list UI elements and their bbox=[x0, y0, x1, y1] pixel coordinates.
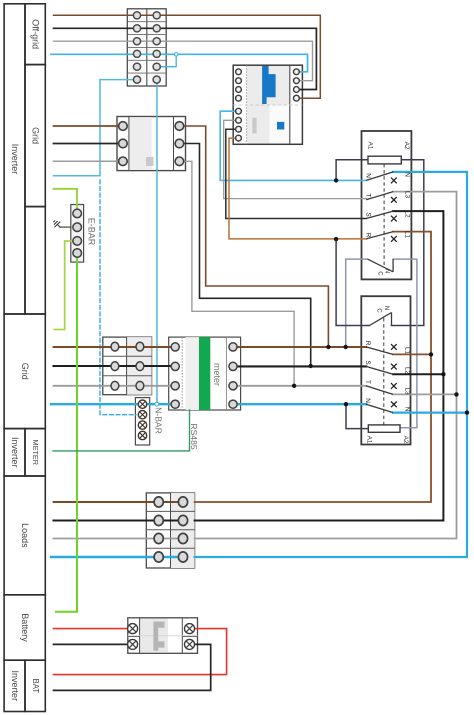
svg-text:N: N bbox=[404, 172, 411, 177]
wire earth stub bbox=[60, 226, 71, 228]
wire ATS out L3 gray bbox=[195, 192, 457, 539]
wire off-grid N cyan bbox=[51, 54, 308, 72]
svg-text:A1: A1 bbox=[367, 142, 374, 150]
contactor K2 body bbox=[103, 337, 152, 395]
label box Inverter (meter row) bbox=[4, 429, 25, 476]
label box Inverter (top) bbox=[4, 4, 25, 314]
wire ATS out L2 black bbox=[195, 211, 444, 520]
loads block TB2 body bbox=[146, 493, 194, 568]
battery breaker terminals bbox=[128, 624, 195, 650]
wire KA2 out N stub bbox=[393, 412, 467, 414]
wire grid L3 gray bbox=[54, 385, 367, 387]
svg-text:Inverter: Inverter bbox=[10, 671, 20, 702]
KA1 linkage dashed bbox=[383, 164, 385, 266]
wire ATS out N cyan bbox=[195, 172, 467, 557]
wire off-grid L1 brown bbox=[54, 15, 321, 98]
wire off-grid L2 black bbox=[54, 28, 317, 89]
KA2 coil bbox=[368, 425, 400, 432]
svg-text:C: C bbox=[377, 271, 383, 276]
svg-text:T: T bbox=[364, 194, 371, 198]
wire grid-top L3 gray bbox=[54, 160, 124, 162]
wire KA1 changeover common bbox=[346, 259, 368, 347]
svg-text:Off-grid: Off-grid bbox=[30, 19, 40, 49]
KA1 coil bbox=[368, 156, 401, 164]
svg-text:R: R bbox=[364, 233, 371, 238]
RCD toggle bbox=[262, 66, 276, 104]
svg-text:N: N bbox=[364, 398, 371, 403]
svg-text:R: R bbox=[364, 341, 371, 346]
wire grid-top N blue bbox=[54, 80, 138, 176]
wire KA1 A2 link bbox=[392, 160, 424, 326]
wire RCD L1 out orange bbox=[229, 138, 366, 239]
RCD terminals bbox=[236, 69, 300, 141]
LABEL PANEL bbox=[4, 4, 45, 712]
label box Off-grid bbox=[25, 4, 45, 65]
svg-text:A2: A2 bbox=[403, 142, 410, 150]
wire KA2 out L1 stub bbox=[393, 353, 431, 355]
svg-text:N: N bbox=[403, 407, 410, 412]
wire KA1 A1 link bbox=[336, 160, 368, 181]
RCD Q1 body bbox=[233, 65, 302, 144]
svg-text:L1: L1 bbox=[403, 347, 410, 355]
svg-text:E-BAR: E-BAR bbox=[86, 218, 96, 246]
svg-text:S: S bbox=[364, 212, 371, 216]
label box METER bbox=[25, 429, 45, 476]
wire K1 out L3 gray bbox=[180, 161, 295, 385]
loads block terminals bbox=[154, 497, 188, 562]
relay KA1 internals bbox=[364, 142, 410, 277]
label box Loads bbox=[4, 476, 45, 595]
svg-text:T: T bbox=[364, 380, 371, 384]
relay KA2 body bbox=[361, 296, 410, 444]
RCD test button bbox=[277, 122, 284, 130]
KA1 contact N bbox=[366, 172, 393, 239]
wire dashed N link bbox=[100, 180, 136, 415]
wire KA2 A1 link bbox=[346, 404, 368, 428]
svg-text:METER: METER bbox=[31, 440, 40, 466]
meter terminals bbox=[171, 343, 237, 409]
wire K1 out L1 brown bbox=[180, 126, 329, 347]
E-BAR terminals bbox=[73, 209, 82, 257]
svg-text:S: S bbox=[364, 360, 371, 364]
svg-text:RS485: RS485 bbox=[189, 423, 199, 449]
KA2 changeover bbox=[369, 313, 391, 326]
label box Inverter (bottom) bbox=[4, 660, 25, 711]
relay KA2 internals bbox=[364, 306, 410, 444]
wire loads N cyan bbox=[51, 556, 183, 558]
contactor K2 terminals bbox=[111, 342, 144, 390]
svg-text:Inverter: Inverter bbox=[10, 437, 20, 468]
node N link bbox=[155, 402, 159, 406]
relay KA1 body bbox=[362, 131, 412, 279]
svg-text:C: C bbox=[376, 308, 382, 313]
wire KA2 changeover common bbox=[336, 239, 369, 325]
wire E-BAR feed green vertical bbox=[56, 253, 77, 612]
svg-text:Inverter: Inverter bbox=[10, 144, 20, 175]
junction dots bbox=[292, 178, 469, 415]
battery breaker body bbox=[128, 618, 198, 654]
svg-text:A2: A2 bbox=[402, 436, 409, 444]
terminal block TB1 terminals bbox=[133, 12, 160, 84]
N-BAR body bbox=[135, 398, 149, 445]
svg-text:L2: L2 bbox=[403, 367, 410, 375]
wire TB1 row6 to N link bbox=[156, 80, 158, 402]
svg-text:N: N bbox=[384, 269, 390, 273]
contactor K1 body bbox=[117, 117, 186, 171]
meter body bbox=[169, 337, 241, 410]
wire battery out + red bbox=[54, 629, 227, 675]
wire KA2 out L3 stub bbox=[393, 393, 457, 395]
wire grid N cyan bbox=[51, 403, 366, 405]
wire RCD L3 out gray bbox=[224, 120, 367, 198]
svg-text:Grid: Grid bbox=[20, 363, 30, 380]
svg-text:BAT: BAT bbox=[31, 679, 40, 694]
KA2 contacts bbox=[366, 347, 393, 413]
wire battery out - black bbox=[54, 644, 211, 690]
wire E-BAR grid green bbox=[54, 241, 77, 330]
label box BAT bbox=[25, 660, 45, 711]
svg-text:N-BAR: N-BAR bbox=[153, 407, 163, 434]
wire grid-top PE green bbox=[54, 189, 78, 213]
RCD lever slot bbox=[252, 118, 256, 134]
wire battery - black bbox=[54, 643, 133, 645]
wire off-grid L3 gray bbox=[54, 41, 313, 80]
svg-text:A1: A1 bbox=[366, 436, 373, 444]
N-BAR terminals bbox=[138, 400, 146, 440]
contactor K1 terminals bbox=[119, 122, 184, 166]
svg-text:L3: L3 bbox=[404, 191, 411, 199]
KA2 linkage dashed bbox=[383, 318, 385, 425]
wire grid-top L2 black bbox=[54, 143, 124, 145]
wire RCD L2 out black bbox=[226, 129, 367, 218]
wire loads L1 brown bbox=[54, 501, 184, 503]
label box Grid (main) bbox=[4, 314, 45, 429]
svg-text:Loads: Loads bbox=[20, 523, 30, 548]
wire loads L3 gray bbox=[54, 538, 184, 540]
ground symbol bbox=[51, 218, 63, 230]
label box empty bbox=[25, 207, 45, 314]
svg-text:L3: L3 bbox=[403, 387, 410, 395]
wire grid-top L1 brown bbox=[54, 125, 124, 127]
label box Grid (top) bbox=[25, 65, 45, 207]
wire KA2 A2 link bbox=[393, 259, 417, 428]
wire grid L1 brown bbox=[54, 346, 367, 348]
svg-text:N: N bbox=[383, 306, 389, 310]
wire RCD N out cyan bbox=[220, 111, 366, 180]
svg-text:L1: L1 bbox=[404, 231, 411, 239]
wire KA2 out L2 stub bbox=[393, 373, 443, 375]
KA1 changeover bbox=[368, 259, 394, 272]
wire K1 out L2 black bbox=[180, 144, 311, 367]
label box Battery bbox=[4, 595, 45, 660]
terminal block TB1 body bbox=[127, 9, 166, 86]
svg-text:Grid: Grid bbox=[30, 127, 40, 144]
node top cyan bbox=[174, 53, 178, 57]
wire battery + red bbox=[54, 628, 133, 630]
wire grid L2 black bbox=[54, 365, 367, 367]
wire node link TB1 row5 bbox=[157, 54, 176, 66]
svg-text:Battery: Battery bbox=[20, 613, 30, 642]
E-BAR body bbox=[71, 205, 84, 263]
wire ATS out L1 brown bbox=[195, 232, 431, 502]
svg-text:N: N bbox=[364, 173, 371, 178]
wire loads L2 black bbox=[54, 519, 184, 521]
svg-text:L2: L2 bbox=[404, 210, 411, 218]
wire RS485 green bbox=[53, 410, 190, 451]
svg-text:meter: meter bbox=[212, 363, 222, 386]
